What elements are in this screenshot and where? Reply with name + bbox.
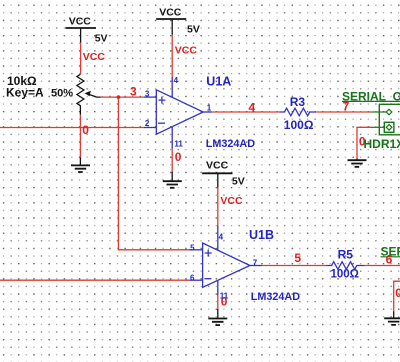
svg-text:11: 11 bbox=[174, 140, 183, 149]
svg-text:VCC: VCC bbox=[69, 15, 92, 27]
svg-text:HDR1X2: HDR1X2 bbox=[364, 137, 400, 151]
svg-text:0: 0 bbox=[175, 150, 182, 164]
svg-text:U1B: U1B bbox=[249, 228, 274, 242]
svg-text:LM324AD: LM324AD bbox=[206, 138, 255, 150]
svg-text:4: 4 bbox=[174, 76, 179, 85]
svg-text:11: 11 bbox=[220, 291, 229, 300]
svg-text:VCC: VCC bbox=[83, 51, 106, 63]
svg-text:R3: R3 bbox=[290, 95, 306, 109]
svg-text:2: 2 bbox=[145, 119, 150, 128]
svg-text:3: 3 bbox=[130, 85, 137, 99]
svg-text:100Ω: 100Ω bbox=[331, 269, 359, 281]
svg-text:5V: 5V bbox=[95, 33, 108, 45]
svg-text:0: 0 bbox=[82, 123, 89, 137]
svg-text:6: 6 bbox=[190, 274, 195, 283]
svg-text:U1A: U1A bbox=[206, 75, 231, 89]
svg-text:4: 4 bbox=[219, 232, 224, 241]
svg-text:5V: 5V bbox=[187, 23, 200, 35]
svg-text:7: 7 bbox=[253, 258, 258, 267]
svg-text:LM324AD: LM324AD bbox=[251, 291, 300, 303]
svg-text:5: 5 bbox=[190, 243, 195, 252]
svg-text:Key=A: Key=A bbox=[6, 86, 44, 100]
svg-text:0: 0 bbox=[395, 286, 400, 300]
svg-text:VCC: VCC bbox=[220, 195, 243, 207]
svg-text:VCC: VCC bbox=[175, 44, 198, 56]
svg-text:50%: 50% bbox=[51, 88, 73, 100]
svg-text:4: 4 bbox=[249, 101, 256, 115]
svg-text:5V: 5V bbox=[232, 175, 245, 187]
svg-text:VCC: VCC bbox=[159, 6, 182, 18]
svg-text:1: 1 bbox=[207, 104, 212, 113]
svg-text:SERIAL_OUT: SERIAL_OUT bbox=[342, 90, 400, 104]
svg-text:SERIAL_OUT: SERIAL_OUT bbox=[381, 245, 400, 259]
svg-text:R5: R5 bbox=[338, 247, 354, 261]
svg-text:5: 5 bbox=[294, 251, 301, 265]
svg-text:VCC: VCC bbox=[206, 159, 229, 171]
svg-text:3: 3 bbox=[145, 90, 150, 99]
svg-text:100Ω: 100Ω bbox=[284, 118, 314, 132]
